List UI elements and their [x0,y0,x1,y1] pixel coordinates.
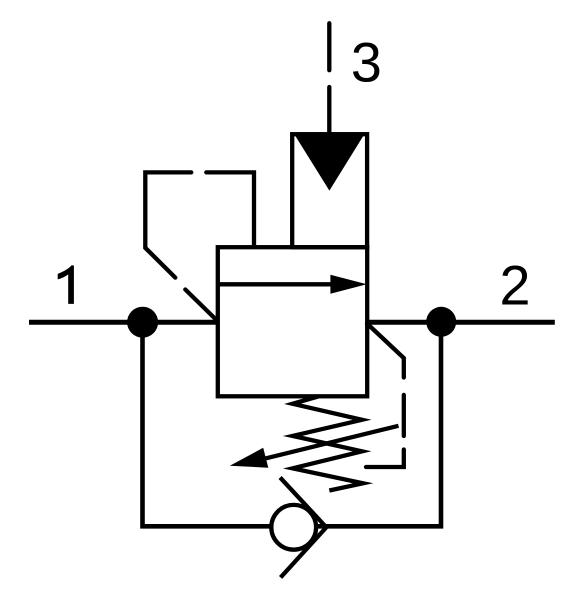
wire port 1 line [29,320,218,325]
flow arrow head [330,275,366,294]
svg-text:2: 2 [500,254,531,316]
wire bypass loop (node 1 down, bottom, up to node 2) [143,322,442,526]
svg-text:3: 3 [351,31,382,93]
spring [293,397,363,491]
node 1 junction [127,307,158,338]
left pilot dashed line (node1 to spring chamber) [145,172,254,319]
wire port 2 line [367,320,555,325]
valve body [218,247,367,396]
right pilot dashed line (port2 to spring chamber) [366,324,404,468]
check valve ball [271,505,316,550]
node 2 junction [426,307,456,337]
actuator box U1 [292,134,367,247]
spring adjustment arrow head [230,448,268,468]
port label 1 [58,265,74,304]
check valve seat lower arm [281,527,327,577]
port 3 dashed pilot line [327,23,331,136]
check valve seat upper arm [280,478,326,528]
actuator triangle (pilot pressure) [295,135,364,190]
spring adjustment arrow shaft [264,426,399,459]
flow arrow shaft [218,282,336,286]
